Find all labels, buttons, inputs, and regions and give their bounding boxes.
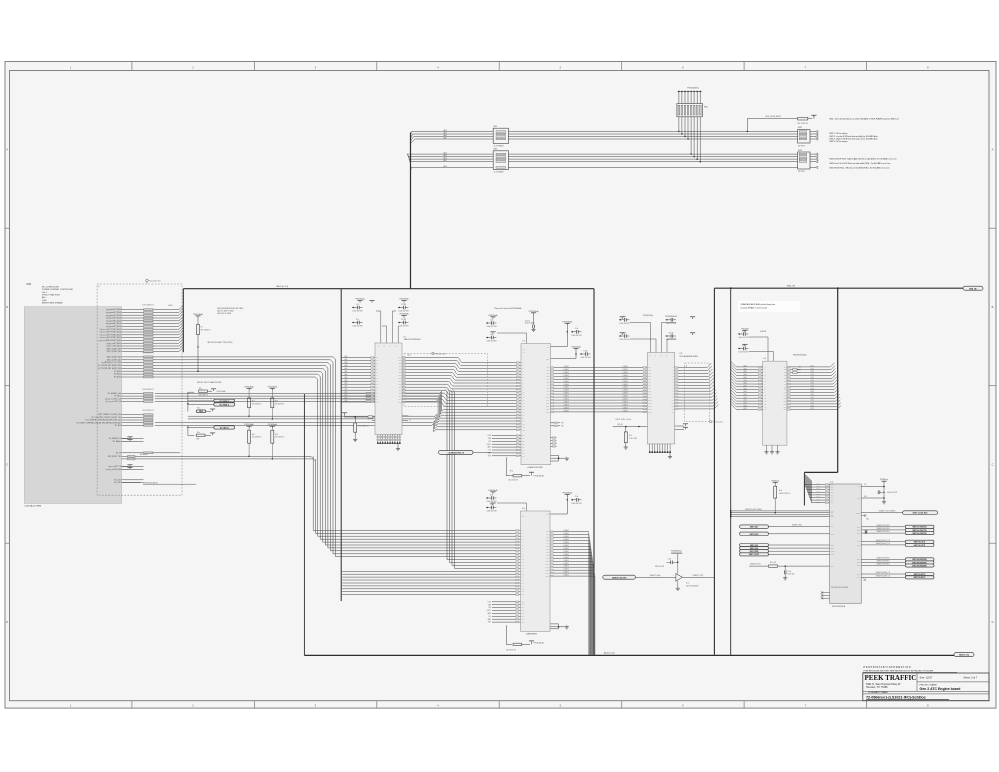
svg-text:DQ1: DQ1	[546, 534, 549, 536]
wires G2 to flash lower rows	[155, 391, 521, 420]
svg-text:SW2.8 NOR Flash - Effective on: SW2.8 NOR Flash - Effective on the AVDS …	[829, 167, 890, 170]
svg-text:DQ2: DQ2	[547, 373, 550, 375]
svg-text:IO2: IO2	[784, 372, 786, 374]
svg-text:SW2: SW2	[798, 150, 802, 152]
svg-text:U.16: U.16	[686, 583, 689, 585]
svg-text:100nF 10V X5R: 100nF 10V X5R	[399, 311, 409, 313]
svg-text:C.7x: C.7x	[356, 304, 359, 306]
flash U5 left lower pin boxes	[516, 409, 519, 431]
svg-text:I2C1_SCL/PTMT_CSC/SPI1_SCK/IFC: I2C1_SCL/PTMT_CSC/SPI1_SCK/IFC_CS1	[91, 417, 121, 419]
svg-text:POWER ON RESET CONTROLLER: POWER ON RESET CONTROLLER	[42, 289, 73, 291]
phy txctl pills	[861, 530, 934, 547]
svg-text:CE#: CE#	[522, 450, 525, 452]
svg-text:V: V	[384, 346, 385, 348]
svg-text:DQ10: DQ10	[546, 561, 549, 563]
svg-text:10K 1/10W 1%: 10K 1/10W 1%	[142, 353, 154, 355]
svg-text:MF_ZQ: MF_ZQ	[618, 424, 624, 426]
sram U6 body	[521, 508, 551, 636]
svg-text:BFC_WDCK3_TDC: BFC_WDCK3_TDC	[108, 456, 122, 458]
svg-text:100nF 10V X5R: 100nF 10V X5R	[572, 335, 582, 337]
buffer U7 ground pin fan	[377, 435, 401, 451]
svg-text:BSE_OE: BSE_OE	[787, 286, 796, 288]
svg-text:B: B	[992, 305, 994, 309]
svg-text:IO0: IO0	[784, 366, 786, 368]
svg-text:C.9x: C.9x	[742, 330, 745, 332]
svg-text:1B6: 1B6	[399, 372, 401, 374]
phy no-connect stubs	[821, 591, 830, 599]
svg-text:SC.7M: SC.7M	[669, 332, 674, 334]
svg-text:P R O P R I E T A R Y I N F: P R O P R I E T A R Y I N F O R M A T I …	[864, 666, 911, 669]
svg-text:LADD [0..15]: LADD [0..15]	[276, 285, 288, 288]
svg-text:SGMII(TO-RG-RXD2: SGMII(TO-RG-RXD2	[876, 564, 889, 566]
svg-text:SW2: SW2	[798, 127, 802, 129]
svg-text:L.D00: L.D00	[810, 366, 814, 368]
bus group 2 wires CFG_RCW	[407, 152, 798, 168]
phy left signal pills	[740, 544, 830, 557]
svg-text:SW1 - Sets the Boot device to: SW1 - Sets the Boot device to either SDC…	[829, 117, 898, 120]
svg-text:10K 1/10W 1%: 10K 1/10W 1%	[506, 649, 517, 651]
svg-text:MDIO: MDIO	[831, 533, 834, 535]
svg-text:DQ4: DQ4	[546, 543, 549, 545]
svg-text:DQ13: DQ13	[546, 570, 549, 572]
wires AVD rail to flash lower rows	[188, 414, 521, 426]
U1B description text	[24, 287, 73, 508]
sram U4 capacitor group	[738, 328, 774, 361]
svg-text:DQ1: DQ1	[547, 370, 550, 372]
svg-text:CLK: CLK	[488, 616, 491, 618]
svg-text:CFG_RCW_SRC0: CFG_RCW_SRC0	[765, 116, 781, 118]
svg-text:DQ11: DQ11	[546, 400, 549, 402]
svg-text:ENET_MDC: ENET_MDC	[750, 527, 759, 529]
svg-text:V: V	[378, 346, 379, 348]
svg-text:ENET1-RG-TXCTL: ENET1-RG-TXCTL	[914, 545, 926, 547]
svg-text:100nF 10V X5R: 100nF 10V X5R	[487, 511, 497, 513]
svg-text:LBCTL: LBCTL	[487, 444, 492, 446]
bus ring B inner vertical	[730, 288, 732, 655]
bus ring B right edge with step	[804, 288, 837, 505]
svg-text:MT47H64M16NF-25E:M: MT47H64M16NF-25E:M	[680, 356, 699, 358]
svg-text:IO5: IO5	[784, 381, 786, 383]
svg-text:ENET1-RG-TXD2(TX2): ENET1-RG-TXD2(TX2)	[913, 533, 928, 535]
phy rxctl pills	[861, 572, 934, 581]
sram U4 body	[763, 355, 807, 446]
svg-text:L.D15: L.D15	[810, 408, 814, 410]
svg-text:CE#: CE#	[522, 619, 525, 621]
svg-text:MDC: MDC	[831, 526, 834, 528]
svg-text:DQ8: DQ8	[649, 391, 652, 393]
svg-text:GS: 4: GS: 4	[42, 292, 47, 294]
svg-text:DQ6: DQ6	[546, 549, 549, 551]
svg-text:1B4: 1B4	[399, 390, 401, 392]
resistor network RN4	[493, 149, 508, 174]
sdram U8 left pin boxes	[643, 366, 674, 413]
sram U6 capacitor group	[486, 489, 581, 514]
sdram U8 body	[647, 353, 698, 444]
svg-text:SW2.4 - NC/on always: SW2.4 - NC/on always	[829, 141, 847, 143]
flash U5 ground pins	[551, 455, 569, 461]
phy left bus fan	[804, 473, 829, 503]
pull-up cluster 1 with pills	[187, 381, 234, 413]
svg-text:IFC_CLK1: IFC_CLK1	[114, 482, 121, 484]
svg-text:IO11: IO11	[783, 398, 786, 400]
svg-text:Gen 2 ATC Engine board: Gen 2 ATC Engine board	[920, 687, 961, 691]
svg-text:RXD4: RXD4	[816, 494, 820, 496]
U1B IFC control pin rows	[76, 410, 154, 427]
svg-text:RX0: RX0	[831, 484, 834, 486]
svg-text:RXC1: RXC1	[857, 577, 861, 579]
svg-text:RXD3: RXD3	[816, 491, 820, 493]
svg-text:4x 33 RPACK: 4x 33 RPACK	[494, 145, 505, 148]
svg-text:L.D11: L.D11	[810, 397, 814, 399]
svg-text:DNE: DNE	[798, 366, 801, 368]
svg-text:MD0: MD0	[831, 510, 834, 512]
flash U5 reset pull-up	[506, 457, 544, 481]
vertical bus to ring A	[407, 132, 415, 289]
svg-text:R.5x: R.5x	[510, 471, 513, 473]
svg-text:C.9x: C.9x	[490, 334, 493, 336]
DIP switch SW2 lower half	[798, 150, 818, 173]
svg-text:CE#: CE#	[522, 613, 525, 615]
flash U5 note and power flags	[495, 307, 539, 332]
svg-text:VCC: VCC	[547, 347, 550, 349]
svg-text:WP#: WP#	[522, 349, 525, 351]
svg-text:CE#: CE#	[522, 447, 525, 449]
vertical wire bundle left of ring A	[313, 359, 335, 556]
svg-text:1B8: 1B8	[399, 402, 401, 404]
svg-text:DQ6: DQ6	[547, 385, 550, 387]
svg-text:CE#: CE#	[522, 455, 525, 457]
svg-text:RST: RST	[488, 622, 491, 624]
svg-text:100nF 10V X5R: 100nF 10V X5R	[572, 503, 582, 505]
svg-text:10K 1/10W 1%: 10K 1/10W 1%	[142, 389, 154, 391]
svg-text:SGMII(TO_MD_RST): SGMII(TO_MD_RST)	[612, 577, 627, 579]
svg-text:DQ15: DQ15	[546, 576, 549, 578]
svg-text:CE#: CE#	[522, 452, 525, 454]
switch setting notes	[829, 117, 898, 169]
flash U5 control rows	[487, 435, 521, 458]
svg-text:R.8x: R.8x	[199, 388, 202, 390]
svg-text:SRAM/BLE AND BHE pulled alway: SRAM/BLE AND BHE pulled alway low	[741, 303, 776, 306]
svg-text:IO4: IO4	[784, 378, 786, 380]
svg-text:10K 1/10W 1%: 10K 1/10W 1%	[252, 437, 262, 439]
svg-text:DQ14: DQ14	[546, 408, 549, 410]
svg-text:IO3: IO3	[784, 375, 786, 377]
svg-text:DQ3: DQ3	[649, 376, 652, 378]
svg-text:TXD1: TXD1	[857, 529, 860, 531]
sdram U8 dashed boundary	[685, 363, 724, 424]
svg-text:A: A	[6, 148, 8, 152]
svg-text:V: V	[655, 355, 656, 357]
svg-text:RN3: RN3	[494, 126, 498, 128]
svg-text:DQ11: DQ11	[649, 400, 652, 402]
svg-text:A: A	[992, 148, 994, 152]
svg-text:R.3x: R.3x	[779, 490, 782, 492]
svg-text:V: V	[666, 355, 667, 357]
net flag pill top right	[963, 286, 983, 290]
svg-text:C.7x: C.7x	[356, 319, 359, 321]
svg-text:IFC_RD/1: IFC_RD/1	[114, 396, 121, 398]
svg-text:72-0966rev1-(LS1021-IFC)-SchDo: 72-0966rev1-(LS1021-IFC)-SchDoc	[866, 696, 926, 700]
svg-text:U.5: U.5	[523, 340, 526, 342]
svg-text:C.9x: C.9x	[490, 319, 493, 321]
svg-text:R.12x: R.12x	[197, 408, 201, 410]
svg-text:DQ13: DQ13	[649, 406, 652, 408]
U1B address pin rows with series resistors	[99, 304, 184, 353]
svg-text:DQ7: DQ7	[649, 388, 652, 390]
svg-text:100nF 10V X5R: 100nF 10V X5R	[581, 357, 591, 359]
svg-text:10K 1/10W 1%: 10K 1/10W 1%	[275, 437, 285, 439]
svg-text:IO12: IO12	[783, 401, 786, 403]
phy body	[830, 482, 862, 608]
svg-text:10K 1/10W 1%: 10K 1/10W 1%	[252, 403, 262, 405]
svg-text:VCC: VCC	[546, 514, 549, 516]
pull-up resistors R10 R11	[245, 385, 285, 419]
bus LADD ring A top edge	[183, 285, 594, 289]
buffer U7 OE circuit	[342, 413, 375, 442]
svg-text:V: V	[390, 346, 391, 348]
svg-text:C.9x2: C.9x2	[584, 350, 588, 352]
bus ring A left entry	[182, 289, 184, 353]
svg-text:LOE: LOE	[488, 441, 491, 443]
svg-text:DQ4: DQ4	[649, 379, 652, 381]
svg-text:MD2: MD2	[831, 514, 834, 516]
buffer U7 left pin rows	[341, 355, 401, 403]
svg-text:ENET1-RG-RXD2(RX2): ENET1-RG-RXD2(RX2)	[912, 566, 927, 568]
svg-text:L.D07: L.D07	[810, 385, 814, 387]
svg-text:P3V3(OBtoA): P3V3(OBtoA)	[533, 642, 544, 645]
svg-text:LA21 SETS DRAM TYPE (DDR3): LA21 SETS DRAM TYPE (DDR3)	[207, 341, 233, 344]
buffer U7 body	[375, 336, 421, 434]
svg-text:Place 0x7 close to NOR FLASH: Place 0x7 close to NOR FLASH	[495, 307, 522, 310]
svg-text:DQ1: DQ1	[649, 370, 652, 372]
svg-text:1B5: 1B5	[399, 393, 401, 395]
svg-text:ENET_CLK125: ENET_CLK125	[749, 554, 759, 556]
svg-text:B: B	[6, 305, 8, 309]
svg-text:4K7 1/10W 1%: 4K7 1/10W 1%	[201, 330, 212, 332]
svg-text:1B2: 1B2	[399, 384, 401, 386]
svg-text:SGMII(TO_MDn: SGMII(TO_MDn	[650, 575, 661, 577]
sram U6 control rows	[487, 601, 521, 624]
sdram U8 ground pin fan	[649, 444, 672, 459]
sram U6 right data rows to bottom bus	[550, 529, 595, 655]
svg-text:C: C	[6, 463, 8, 467]
svg-text:LCS0: LCS0	[488, 435, 492, 437]
svg-text:V: V	[650, 355, 651, 357]
svg-text:74ALVC16T245RGGR: 74ALVC16T245RGGR	[404, 338, 422, 341]
svg-text:100nF 10V X5R: 100nF 10V X5R	[353, 311, 363, 313]
svg-text:L.D14: L.D14	[810, 405, 814, 407]
svg-text:RX1: RX1	[831, 487, 834, 489]
svg-text:R.x: R.x	[201, 327, 204, 329]
svg-text:CE#: CE#	[522, 622, 525, 624]
svg-text:IO8: IO8	[784, 389, 786, 391]
svg-text:CE2: CE2	[522, 516, 525, 518]
svg-text:IFC_TE: IFC_TE	[116, 452, 121, 454]
svg-text:ENET_CLK125_NDO: ENET_CLK125_NDO	[913, 513, 928, 515]
svg-text:C.7x: C.7x	[623, 332, 626, 334]
svg-text:C.7x: C.7x	[623, 316, 626, 318]
svg-text:VCC: VCC	[864, 484, 867, 486]
svg-text:SGMII(TO-RG-RX_CTL: SGMII(TO-RG-RX_CTL	[876, 572, 891, 574]
svg-text:SGMII(TO CLK 125MHz): SGMII(TO CLK 125MHz)	[879, 510, 896, 512]
svg-text:1B7: 1B7	[399, 375, 401, 377]
svg-text:10K 1/10W 1%: 10K 1/10W 1%	[142, 410, 154, 412]
svg-text:CE#: CE#	[522, 444, 525, 446]
buffer U7 direction stubs	[402, 416, 411, 423]
svg-text:DQ2: DQ2	[546, 537, 549, 539]
svg-text:1B3: 1B3	[399, 363, 401, 365]
svg-text:RDY: RDY	[561, 422, 564, 424]
svg-text:100nF 10V X5R: 100nF 10V X5R	[739, 352, 749, 354]
svg-text:CLK125: CLK125	[856, 512, 861, 514]
svg-text:ADD [0..15]: ADD [0..15]	[959, 654, 969, 657]
U1B data pin rows band to vertical bundle	[98, 353, 336, 380]
svg-text:ENET1-RG-RXCTL: ENET1-RG-RXCTL	[914, 577, 926, 579]
svg-text:AB: c: AB: c	[42, 296, 47, 299]
svg-text:4x 33 RPACK: 4x 33 RPACK	[494, 171, 505, 174]
svg-text:SW2.5o8 NOR Flash: High for Ad: SW2.5o8 NOR Flash: High for Addr shift l…	[829, 158, 897, 161]
svg-text:GND: GND	[864, 496, 867, 498]
svg-text:Processor Set: Processor Set	[149, 280, 161, 283]
svg-text:P3V3(x5R): P3V3(x5R)	[741, 328, 749, 330]
title block	[863, 666, 989, 701]
svg-text:1B6: 1B6	[399, 396, 401, 398]
svg-text:P3V3(DDRx(x)): P3V3(DDRx(x))	[671, 551, 682, 553]
DIP switch SW2 upper half	[798, 127, 818, 147]
svg-text:1B1: 1B1	[399, 357, 401, 359]
svg-text:DQ14: DQ14	[546, 573, 549, 575]
svg-text:L.D13: L.D13	[810, 403, 814, 405]
svg-text:SGMII(TO_MDC: SGMII(TO_MDC	[792, 524, 802, 526]
phy pull-up resistor R3x	[771, 479, 791, 513]
svg-text:LED3: LED3	[831, 554, 834, 556]
sram U4 left rows from bus	[731, 361, 763, 410]
svg-text:100nF 10V X5R: 100nF 10V X5R	[487, 326, 497, 328]
svg-text:U.8: U.8	[680, 353, 683, 355]
svg-text:CE#: CE#	[522, 435, 525, 437]
svg-text:RX4: RX4	[831, 494, 834, 496]
sdram U8 ZQ resistor	[613, 418, 688, 449]
net flag pill bottom right	[954, 653, 974, 657]
svg-text:DQ12: DQ12	[546, 567, 549, 569]
phy power decoupling right top	[861, 478, 897, 504]
svg-text:IO15: IO15	[783, 409, 786, 411]
svg-text:4.7K 1/10W 1%: 4.7K 1/10W 1%	[358, 425, 369, 427]
svg-text:RXD7: RXD7	[816, 501, 820, 503]
svg-text:TXC0: TXC0	[857, 541, 860, 543]
svg-text:RX3: RX3	[831, 492, 834, 494]
svg-text:IO9: IO9	[784, 392, 786, 394]
svg-text:L.D03: L.D03	[810, 374, 814, 376]
svg-text:SGMII(TO-RG-RXD0: SGMII(TO-RG-RXD0	[876, 557, 889, 559]
svg-text:1B1: 1B1	[399, 381, 401, 383]
svg-text:D: D	[992, 620, 994, 624]
buffer U7 right pin rows to flash	[402, 353, 521, 407]
svg-text:RX6: RX6	[831, 500, 834, 502]
sram U4 DNE stubs	[787, 366, 801, 374]
svg-text:DQ10: DQ10	[546, 397, 549, 399]
svg-text:L.D09: L.D09	[810, 391, 814, 393]
phy txd pills	[861, 525, 934, 535]
svg-text:CE#: CE#	[522, 438, 525, 440]
phy rxd pills	[861, 557, 934, 567]
svg-text:L.D04: L.D04	[810, 377, 814, 379]
bus group 1 wires CFG_RCW	[412, 129, 798, 140]
flash U5 right data rows to SDRAM	[551, 365, 648, 413]
svg-text:1B7: 1B7	[399, 399, 401, 401]
svg-text:10K 1/10W 1%: 10K 1/10W 1%	[142, 305, 154, 307]
svg-text:100nF 10V: 100nF 10V	[788, 574, 795, 576]
svg-text:LED0: LED0	[831, 545, 834, 547]
svg-text:SGMII(TO-RG-TX_CTL: SGMII(TO-RG-TX_CTL	[876, 543, 891, 545]
svg-text:LED1: LED1	[831, 548, 834, 550]
svg-text:1B4: 1B4	[399, 366, 401, 368]
svg-text:R.13: R.13	[252, 434, 255, 436]
svg-text:DQ15: DQ15	[546, 411, 549, 413]
svg-text:IO7: IO7	[784, 386, 786, 388]
wires G3 to flash lower rows	[155, 421, 521, 432]
svg-text:RST#: RST#	[831, 566, 834, 568]
svg-text:SGMII(TO-RG-TXD2: SGMII(TO-RG-TXD2	[877, 531, 890, 533]
svg-text:DQ5: DQ5	[547, 382, 550, 384]
pull-up cluster 2	[187, 426, 234, 441]
svg-text:RX7: RX7	[831, 502, 834, 504]
phy management tap wires	[730, 509, 830, 518]
resistor network RN3	[493, 126, 508, 148]
svg-text:cfg_seq_ss/s1/IFC_OE: cfg_seq_ss/s1/IFC_OE	[106, 401, 121, 403]
sram U6 ground pins	[550, 624, 569, 629]
svg-text:IFC_CLK0: IFC_CLK0	[114, 479, 121, 481]
bus ring B left edge	[713, 288, 715, 655]
svg-text:1B2: 1B2	[399, 360, 401, 362]
svg-text:U.1x: U.1x	[830, 482, 833, 484]
flash U5 right lower pins	[551, 422, 564, 447]
svg-text:DQ7: DQ7	[547, 388, 550, 390]
svg-text:Processor Set: Processor Set	[435, 353, 446, 356]
svg-text:IO14: IO14	[783, 406, 786, 408]
svg-text:LBCTL: LBCTL	[487, 610, 492, 612]
svg-text:PTMT_CSB/SPI1_PCS0/IFC_CS0: PTMT_CSB/SPI1_PCS0/IFC_CS0	[98, 414, 121, 416]
svg-text:SGMII(TO-RG-TXD0: SGMII(TO-RG-TXD0	[877, 525, 890, 527]
svg-text:R.7x: R.7x	[629, 435, 632, 437]
svg-text:PROJECT NAME:: PROJECT NAME:	[920, 683, 938, 686]
svg-text:VCC: VCC	[857, 486, 860, 488]
svg-text:MD1: MD1	[831, 512, 834, 514]
svg-text:BSE_OE: BSE_OE	[969, 288, 977, 290]
svg-text:100nF 10V X5R: 100nF 10V X5R	[620, 323, 630, 325]
svg-text:DIP SW 4: DIP SW 4	[798, 171, 805, 173]
svg-text:DQ10: DQ10	[649, 397, 652, 399]
svg-text:LS1021A-DV-7NNB: LS1021A-DV-7NNB	[24, 505, 41, 508]
Processor Set dashed boundary	[97, 279, 182, 495]
sram U4 right rows to bus	[787, 363, 841, 411]
inverter U16	[635, 551, 714, 591]
svg-text:Sheet: 3 of 7: Sheet: 3 of 7	[964, 676, 978, 679]
flash U5 right capacitor group	[551, 320, 591, 359]
svg-text:100nF 10V X5R: 100nF 10V X5R	[620, 339, 630, 341]
U1B misc stubs	[106, 465, 196, 485]
svg-text:DIP SW 4: DIP SW 4	[798, 145, 805, 147]
bus ring B top edge	[714, 286, 963, 289]
svg-text:U.6: U.6	[522, 508, 525, 510]
svg-text:PEEK TRAFFIC: PEEK TRAFFIC	[865, 674, 917, 682]
sram U4 ground stubs	[764, 445, 779, 454]
svg-text:PTMG, PTMA, PTMT: PTMG, PTMA, PTMT	[42, 294, 61, 297]
svg-text:RXD1: RXD1	[857, 562, 861, 564]
svg-text:CE#: CE#	[522, 441, 525, 443]
svg-text:TXD0: TXD0	[857, 526, 860, 528]
svg-text:GND: GND	[857, 498, 860, 500]
